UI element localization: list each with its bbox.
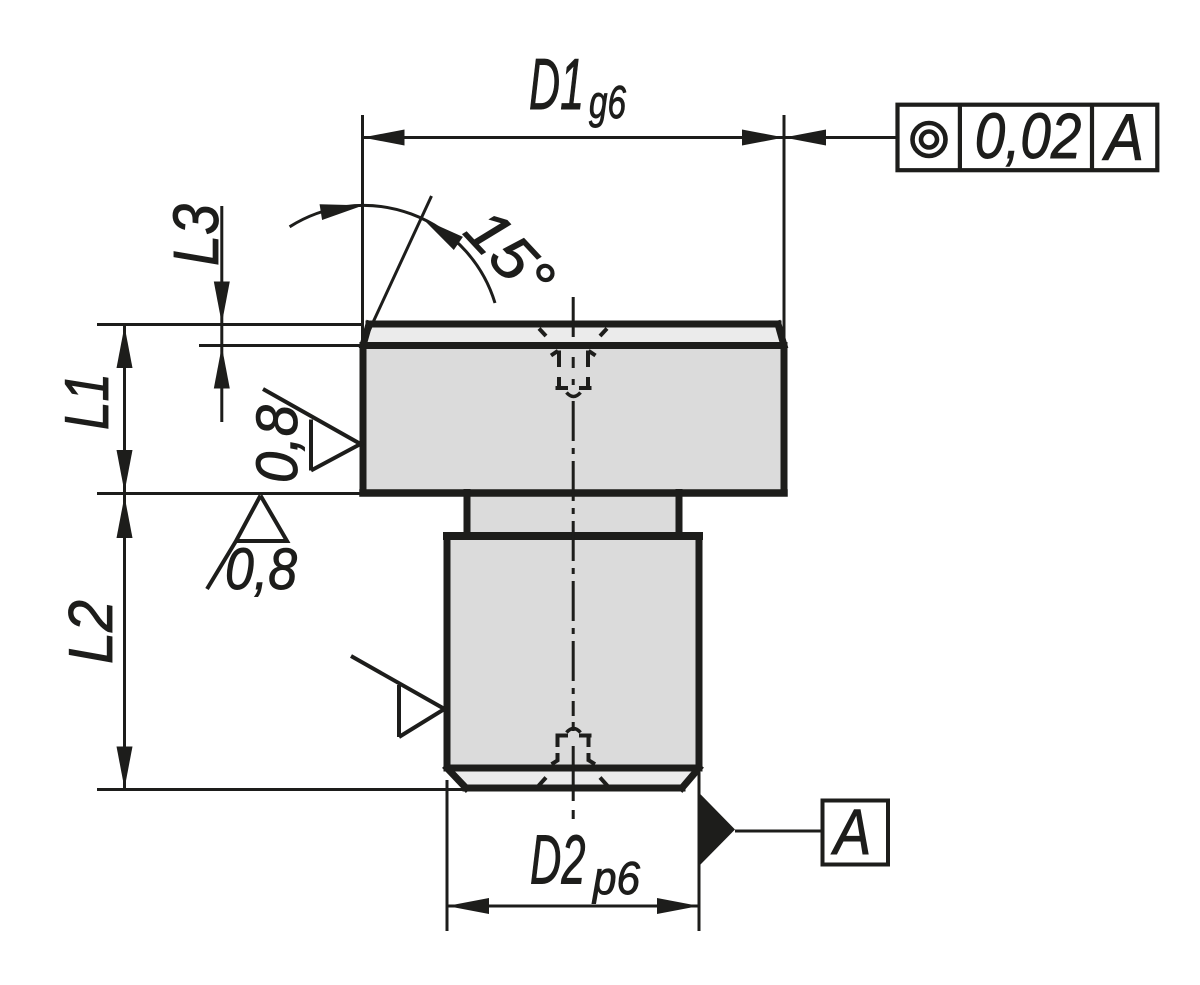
D1 dimension line [363, 136, 785, 139]
shaft right edge [696, 536, 703, 768]
concentricity symbol inner circle [921, 132, 937, 148]
tolerance frame leader line [784, 136, 897, 139]
svg-text:0,8: 0,8 [225, 537, 297, 602]
datum A filled triangle [700, 794, 735, 865]
hidden top hole right wall line [586, 351, 590, 387]
D1 left arrowhead [363, 130, 405, 146]
L2 bottom arrowhead [117, 747, 133, 789]
D1 right extension line [783, 115, 786, 347]
hidden top hole right cone dash [589, 351, 596, 356]
D2 right arrowhead [657, 898, 699, 914]
L1 top arrowhead [117, 326, 133, 368]
hidden bottom hole left cone dash [552, 760, 559, 764]
shaft left edge [444, 536, 451, 768]
D1 left extension line [361, 115, 364, 345]
hidden bottom hole right wall line [587, 737, 591, 762]
L3 upper arrowhead [214, 282, 230, 324]
head right edge [781, 346, 788, 493]
D2 left extension line [446, 780, 449, 931]
svg-text:0,02: 0,02 [975, 100, 1082, 172]
leader arrowhead at D1 extension [784, 130, 826, 146]
angle dimension arc [290, 205, 495, 303]
concentricity symbol outer circle [913, 123, 946, 156]
surface finish symbol on head left face [263, 389, 361, 471]
svg-text:L3: L3 [160, 204, 232, 266]
svg-text:p6: p6 [591, 852, 640, 904]
pin head chamfer band fill [363, 324, 784, 346]
pin head body fill [363, 346, 784, 493]
hidden bottom hole tip dash [567, 729, 581, 733]
D2 dimension line [447, 905, 699, 908]
tolerance frame box [898, 105, 1158, 171]
svg-text:L1: L1 [53, 373, 122, 430]
head bottom edge [363, 489, 784, 497]
hidden top hole left wall line [557, 351, 561, 387]
D2 left arrowhead [447, 898, 489, 914]
svg-text:g6: g6 [589, 76, 626, 128]
datum A box [823, 801, 889, 865]
head top-right chamfer edge [778, 324, 784, 346]
neck left edge [464, 493, 471, 537]
hidden bottom hole right cone dash [588, 760, 595, 764]
datum leader line [735, 830, 823, 833]
angle arc right arrowhead [418, 212, 462, 250]
L3 dimension line [220, 206, 223, 422]
surface finish symbol on head bottom face [207, 496, 287, 590]
shaft bottom-right chamfer edge [682, 768, 699, 788]
surface finish symbol on shaft left face [351, 656, 445, 737]
hidden bottom hole right top bar [579, 734, 592, 738]
head chamfer bottom edge [363, 342, 784, 349]
chamfer angle line [363, 196, 432, 345]
pin neck fill [467, 493, 679, 537]
D2 right extension line [698, 772, 701, 931]
shaft bottom-left chamfer edge [447, 768, 466, 788]
hidden bottom hole right face chamfer dash [600, 778, 608, 786]
hidden top hole right bottom bar [579, 386, 592, 390]
svg-text:L2: L2 [57, 600, 126, 664]
hidden bottom hole left wall line [556, 737, 560, 762]
neck right edge [676, 493, 683, 537]
svg-text:A: A [830, 796, 871, 868]
extension line chamfer bottom left [199, 344, 362, 347]
hidden top hole left cone dash [551, 351, 558, 356]
head top face edge [369, 321, 778, 328]
L1 L2 dimension line [123, 325, 126, 790]
svg-text:A: A [1101, 100, 1144, 174]
extension line head top left [97, 323, 362, 326]
shaft bottom face edge [466, 785, 682, 792]
shaft top shoulder edge [447, 532, 699, 540]
hidden bottom hole left face chamfer dash [539, 778, 547, 786]
extension line head bottom left [97, 492, 363, 495]
centerline [572, 297, 575, 819]
angle arc left arrowhead [320, 197, 365, 220]
pin shaft bottom chamfer band fill [447, 768, 699, 788]
L1 bottom arrowhead [117, 450, 133, 492]
svg-text:0,8: 0,8 [245, 405, 310, 483]
hidden top hole tip dash [567, 393, 581, 397]
pin shaft body fill [447, 536, 699, 768]
svg-text:D2: D2 [530, 821, 586, 899]
D1 right arrowhead [742, 130, 784, 146]
head top-left chamfer edge [363, 324, 369, 346]
shaft chamfer top edge [447, 765, 699, 772]
hidden top hole right face chamfer dash [600, 329, 607, 337]
head left edge [360, 346, 367, 493]
hidden top hole left bottom bar [556, 386, 569, 390]
hidden top hole left face chamfer dash [539, 329, 546, 337]
L3 lower arrowhead [214, 347, 230, 389]
L2 top arrowhead [117, 496, 133, 538]
hidden bottom hole left top bar [556, 734, 569, 738]
svg-text:D1: D1 [529, 45, 584, 125]
extension line shaft bottom left [97, 788, 466, 791]
